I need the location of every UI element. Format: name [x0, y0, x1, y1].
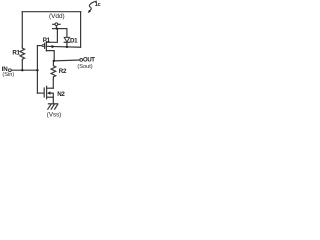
wire N2 source lead [47, 96, 54, 98]
wire top rail [22, 11, 80, 13]
wire P1 body/feedback line [46, 45, 80, 48]
terminal IN circle [9, 69, 12, 72]
svg-text:OUT: OUT [83, 58, 95, 64]
svg-text:D1: D1 [70, 38, 78, 45]
transistor P1 gate bar [44, 43, 46, 48]
wire OUT line [54, 59, 80, 62]
wire P1 source lead [46, 29, 57, 43]
svg-text:(Vdd): (Vdd) [49, 13, 65, 20]
transistor P1 body arrow [52, 45, 55, 48]
terminal OUT circle [80, 59, 83, 62]
wire N2 source to ground [52, 97, 54, 104]
ground hatch strokes [48, 104, 51, 109]
transistor P1 channel bar [45, 41, 47, 51]
transistor N2 channel bar [46, 86, 48, 99]
svg-text:N2: N2 [57, 91, 65, 98]
svg-text:1c: 1c [95, 2, 101, 8]
diode D1 cathode bar [64, 41, 69, 43]
wire Vdd drop [55, 26, 57, 29]
terminal Vdd circle [55, 23, 58, 26]
ground bar [48, 103, 57, 105]
transistor P1 gate bubble [42, 45, 44, 47]
svg-text:(Sin): (Sin) [2, 72, 14, 78]
wire gate bus vertical [36, 46, 38, 94]
svg-text:R2: R2 [59, 68, 67, 75]
wire N2 drain lead [47, 87, 54, 89]
node D1-feedback junction [66, 46, 68, 48]
wire Vdd bar [53, 28, 67, 30]
wire N2 body lead [50, 93, 54, 97]
node IN-R1 junction [21, 69, 23, 71]
wire P1 drain lead [46, 51, 54, 61]
node OUT-drain-R2 junction [53, 60, 55, 62]
wire R2 bottom to N2 drain [52, 79, 54, 88]
svg-text:(Sout): (Sout) [77, 64, 92, 70]
diode D1 bottom lead [66, 42, 68, 46]
diode D1 top lead [66, 29, 68, 38]
resistor R1 [20, 47, 25, 61]
transistor N2 body arrow [47, 91, 50, 94]
node Vdd-source junction [56, 28, 58, 30]
callout arrow 1c [89, 1, 97, 11]
wire N2 gate lead [37, 92, 43, 94]
terminal Vdd lead lines [53, 23, 55, 25]
transistor N2 gate bar [43, 88, 45, 97]
wire left rail [21, 12, 23, 47]
svg-text:R1: R1 [12, 50, 20, 57]
wire IN line [11, 69, 37, 71]
wire P1 gate lead [37, 45, 42, 47]
node IN-gate bus junction [36, 69, 38, 71]
wire R1 bottom to IN line [21, 60, 23, 70]
svg-text:(Vss): (Vss) [47, 112, 61, 119]
wire right rail [80, 12, 82, 48]
svg-text:P1: P1 [43, 37, 51, 44]
diode D1 triangle [64, 37, 69, 42]
resistor R2 [51, 61, 56, 79]
